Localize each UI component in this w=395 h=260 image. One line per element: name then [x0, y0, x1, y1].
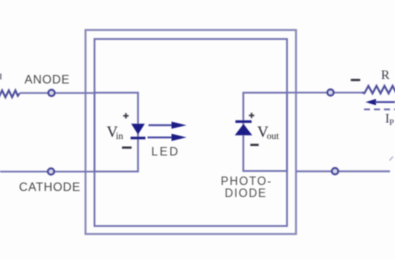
photocurrent arrow Ip (pointing left) — [366, 99, 377, 105]
wire CATHODE lead — [0, 171, 95, 173]
svg-text:R: R — [381, 67, 390, 82]
minus sign (load) — [351, 79, 360, 81]
label fragment at left edge — [0, 74, 1, 80]
resistor Rs (cut off at left edge) — [0, 90, 20, 97]
svg-text:DIODE: DIODE — [225, 188, 267, 200]
svg-text:LED: LED — [151, 145, 179, 159]
plus sign (Vin +) — [123, 113, 128, 118]
dashed line under arrow — [364, 108, 395, 110]
wire output top — [287, 92, 362, 94]
inner package box — [95, 39, 288, 226]
svg-text:CATHODE: CATHODE — [19, 180, 81, 194]
svg-text:out: out — [267, 132, 280, 142]
light emission arrow 1 — [149, 124, 174, 126]
plus sign (Vout +) — [249, 113, 254, 118]
node anode terminal — [48, 90, 54, 96]
node output top terminal — [327, 89, 333, 95]
photodiode D2 triangle (apex up) — [235, 124, 252, 135]
wire ANODE lead — [20, 92, 95, 94]
minus sign (Vin -) — [122, 147, 132, 149]
LED input cell box — [95, 93, 139, 172]
photodiode cell box — [243, 93, 287, 171]
LED D1 triangle — [131, 124, 145, 135]
LED D1 cathode bar — [131, 137, 146, 140]
photodiode D2 cathode bar — [235, 120, 251, 123]
svg-text:P: P — [389, 117, 394, 127]
svg-text:ANODE: ANODE — [25, 73, 70, 87]
minus sign (Vout -) — [250, 144, 258, 146]
node output bottom terminal — [332, 168, 338, 174]
faint mark artifact — [390, 157, 394, 161]
resistor R (cut off at right edge) — [362, 86, 395, 94]
svg-text:PHOTO-: PHOTO- — [221, 176, 272, 188]
wire output bottom — [296, 170, 390, 172]
light emission arrow 2 — [148, 136, 174, 138]
svg-text:in: in — [116, 132, 124, 142]
outer package box — [86, 30, 297, 234]
node cathode terminal — [48, 168, 54, 174]
